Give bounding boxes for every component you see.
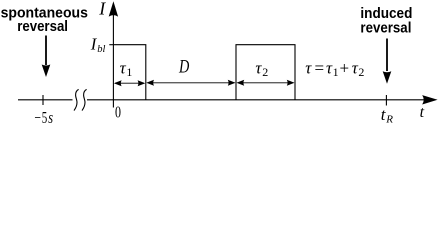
svg-text:−: − [34,108,41,127]
svg-text:D: D [178,57,189,78]
svg-text:2: 2 [262,65,268,79]
svg-text:5: 5 [42,108,48,127]
arrow: spontaneous reversal pointer [42,36,51,78]
svg-text:=: = [315,58,325,77]
pulse 1 (first current pulse) [113,45,145,100]
svg-text:I: I [98,0,106,19]
tick: t_R on time axis [385,95,387,106]
axis break squiggles [74,89,87,110]
svg-text:reversal: reversal [360,20,411,37]
label: induced reversal [360,5,412,36]
arrow: induced reversal pointer [383,39,392,84]
svg-text:τ: τ [305,58,312,77]
tick: -5s on time axis [42,95,44,105]
svg-text:2: 2 [358,65,364,79]
dimension arrow: tau1 [114,80,145,86]
tick: I_bl level on y-axis [109,44,113,46]
dimension arrow: D (delay between pulses) [146,80,235,86]
label: spontaneous reversal [1,5,88,35]
svg-text:reversal: reversal [17,18,68,35]
svg-text:+: + [340,58,350,77]
label: t_R [381,105,394,125]
equation: tau = tau1 + tau2 [305,58,364,79]
pulse 2 (second current pulse) [236,45,295,100]
y-axis (current axis) [109,1,118,107]
dimension arrow: tau2 [237,80,295,86]
svg-text:R: R [385,113,393,125]
svg-text:bl: bl [97,44,105,55]
svg-text:0: 0 [115,102,121,121]
label: I_bl [90,34,106,55]
svg-text:s: s [48,108,53,127]
label: -5s [34,108,53,127]
label: tau2 [255,59,268,80]
svg-text:1: 1 [126,65,132,79]
svg-text:1: 1 [333,65,339,79]
label: tau1 [120,59,133,80]
x-axis (time axis) [18,95,438,104]
svg-text:t: t [420,104,425,121]
